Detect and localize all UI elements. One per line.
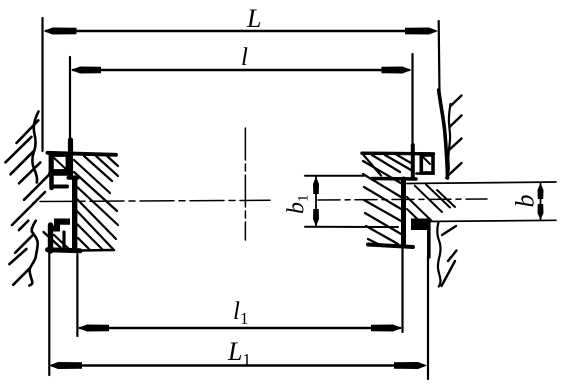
right wall edge bbox=[439, 90, 448, 178]
dimension line b1 bbox=[313, 176, 319, 227]
left slot notch horizontal bbox=[52, 185, 67, 189]
extension line b bottom (strip bottom edge right) bbox=[426, 220, 557, 221]
left blob slot bottom bbox=[49, 219, 71, 232]
dimension line l bbox=[71, 67, 412, 74]
right part flange left diagonal bbox=[364, 155, 382, 176]
right wall lower hatch ticks bbox=[442, 226, 457, 286]
left step bbox=[69, 176, 78, 180]
right part bottom edge bbox=[368, 245, 413, 248]
left tongue diagonal tick bbox=[53, 157, 68, 171]
extension line L1 right bbox=[427, 256, 429, 379]
left part tongue rectangle bbox=[51, 155, 68, 171]
svg-text:b: b bbox=[511, 195, 540, 208]
right part flange bottom / step bbox=[372, 177, 416, 181]
extension line l1 left bbox=[76, 254, 78, 336]
extension line l1 right bbox=[401, 248, 403, 332]
left tongue column bottom bbox=[48, 225, 53, 251]
center line horizontal bbox=[40, 200, 270, 201]
dimension line L bbox=[44, 28, 439, 35]
right blob slot bottom bbox=[411, 219, 430, 231]
extension line l left bbox=[69, 57, 71, 140]
right stem V1 bbox=[411, 145, 415, 177]
left slab hatching bbox=[54, 156, 118, 250]
left wall break wavy upper bbox=[32, 112, 38, 183]
extension line L right bbox=[438, 21, 441, 95]
right tongue bottom overshoot bbox=[417, 172, 434, 175]
extension line b top (strip top edge right) bbox=[407, 182, 556, 184]
left wall hatch ticks lower bbox=[9, 221, 32, 285]
right tongue inner tick bbox=[424, 158, 431, 165]
left slot notch vertical bbox=[49, 154, 54, 188]
left band below tongue rect bbox=[50, 172, 67, 176]
right tongue column bottom (L1 ext start) bbox=[427, 219, 431, 257]
extension line b1 bottom bbox=[305, 226, 398, 228]
right inner column V2 bbox=[401, 179, 406, 246]
left part bottom edge thin bbox=[80, 249, 114, 252]
left lower diagonal bbox=[44, 232, 61, 248]
dimension line l1 bbox=[78, 325, 402, 332]
right wall wavy bbox=[446, 104, 450, 178]
extension line L1 left bbox=[48, 252, 50, 375]
left wall hatch ticks upper bbox=[5, 120, 52, 225]
extension line l right bbox=[411, 54, 413, 145]
left inner column V2 bbox=[72, 178, 77, 250]
left stem (l extension thickened) bbox=[68, 140, 73, 177]
right slab hatching bbox=[363, 155, 411, 246]
svg-text:L: L bbox=[246, 4, 261, 33]
right wall hatch ticks bbox=[448, 96, 462, 177]
left part bottom edge bbox=[48, 250, 81, 251]
right part top edge bbox=[362, 151, 434, 155]
center line vertical bbox=[244, 128, 246, 240]
dimension line L1 bbox=[49, 362, 427, 369]
extension line L left bbox=[41, 18, 43, 151]
extension line b1 top bbox=[305, 175, 364, 177]
right wall break wavy lower bbox=[437, 222, 440, 287]
right strip hatching bbox=[407, 185, 455, 222]
left lower notch vertical bbox=[62, 232, 65, 249]
left wall break wavy lower bbox=[29, 221, 37, 286]
dimension line b bbox=[538, 183, 544, 221]
right tongue rectangle bbox=[421, 155, 433, 173]
left part top edge bbox=[48, 153, 117, 155]
svg-text:l: l bbox=[241, 44, 248, 71]
